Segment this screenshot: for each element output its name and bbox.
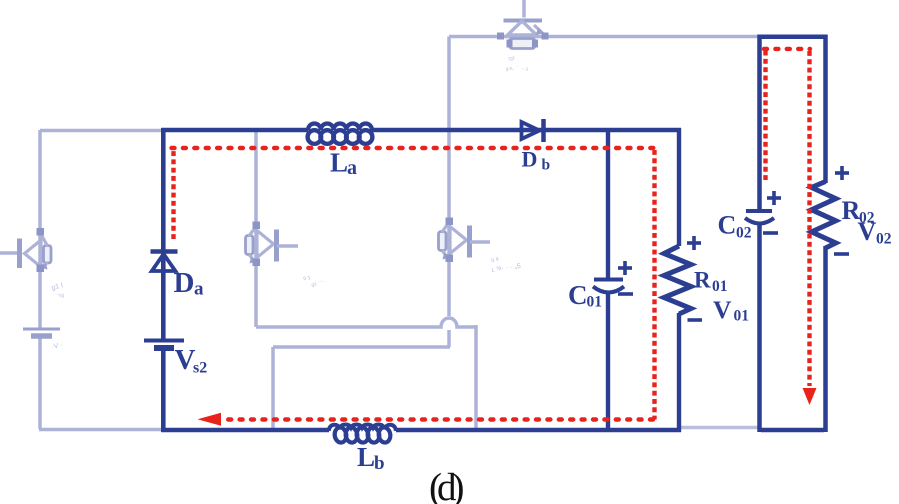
svg-text:ᵍ ᵍ: ᵍ ᵍ [491, 256, 500, 265]
resistor R01 [664, 246, 691, 314]
wire blue C01 branch vertical [606, 130, 610, 430]
svg-text:02: 02 [876, 231, 892, 248]
label faint near battery V-left [51, 342, 63, 351]
svg-text:b: b [542, 157, 551, 174]
label V02 [858, 217, 892, 248]
wire faded bottom-right horizontal (between loops) [680, 426, 759, 430]
capacitor C02 [745, 211, 774, 224]
plus sign C02 [767, 191, 781, 205]
svg-text:s2: s2 [193, 360, 207, 377]
diode Da [151, 252, 178, 272]
wire faded top horizontal (collector rail of Q-top) [449, 35, 760, 39]
wire blue main-loop bottom horizontal [161, 428, 681, 432]
svg-text:01: 01 [587, 294, 603, 311]
battery faded V-left [23, 329, 60, 336]
transistor faded Q-left (IGBT, triangle pointing left) [0, 228, 51, 272]
label La [330, 148, 357, 180]
label Da [174, 267, 205, 300]
svg-text:V: V [858, 217, 877, 246]
wire faded left vertical [38, 130, 42, 429]
capacitor C01 [593, 280, 624, 293]
svg-text:g1 I: g1 I [51, 282, 64, 292]
transistor faded Q1 (middle-left IGBT) [246, 222, 299, 267]
wire faded Q1 vertical x=256 [254, 129, 258, 327]
plus sign C01 [618, 261, 632, 275]
battery Vs2 [144, 341, 184, 349]
wire blue main-loop right vertical [677, 128, 681, 432]
svg-text:ʼ¹ᵍ: ʼ¹ᵍ [57, 292, 65, 301]
svg-text:ʟ ³ᵍ· · · ₄5: ʟ ³ᵍ· · · ₄5 [491, 263, 521, 274]
label V01 [713, 295, 749, 325]
label C02 [718, 211, 752, 242]
current path red dashed main loop [172, 148, 656, 420]
label faint near Q2 [491, 256, 522, 274]
plus sign R01 [687, 236, 701, 250]
svg-text:R: R [694, 268, 711, 293]
wire blue main-loop top horizontal [161, 128, 681, 132]
label Db [522, 147, 551, 174]
svg-text:ᵍ ɪ: ᵍ ɪ [303, 274, 312, 283]
label faint near Q1 [303, 274, 326, 290]
wire faded vertical x=273 down [271, 347, 275, 429]
svg-text:D: D [522, 147, 538, 172]
label Vs2 [175, 344, 208, 377]
svg-text:L: L [330, 148, 348, 178]
svg-text:L: L [357, 442, 375, 472]
minus sign R02 [834, 252, 849, 256]
svg-text:a: a [347, 157, 357, 179]
label R01 [694, 268, 728, 296]
svg-text:01: 01 [734, 308, 750, 325]
wire faded vertical x=476 down [474, 325, 478, 429]
wire faded vertical Q2 collector/emitter x=449 [447, 37, 451, 348]
resistor R02 [812, 182, 836, 249]
diode Db [522, 119, 544, 142]
svg-text:C: C [718, 211, 737, 240]
wire blue main-loop left vertical [161, 128, 166, 432]
wire faded top-left horizontal [40, 129, 164, 133]
label R02 [842, 196, 875, 227]
svg-text:V: V [713, 295, 732, 324]
svg-text:(d): (d) [429, 466, 463, 504]
svg-text:D: D [174, 267, 195, 299]
label Lb [357, 442, 385, 474]
label C01 [568, 280, 602, 311]
minus sign C02 [763, 231, 778, 235]
svg-text:01: 01 [712, 278, 728, 295]
wire faded horizontal with hop (Q1 emitter to x=476) [256, 318, 476, 327]
transistor faded Q2 (middle-right IGBT) [439, 218, 491, 263]
plus sign R02 [835, 166, 849, 180]
wire faded Q2 emitter horizontal y=347 [273, 345, 450, 349]
minus sign R01 [688, 318, 703, 322]
caption (d) [429, 466, 463, 504]
inductor Lb [329, 424, 396, 443]
wire faded bottom-left horizontal [39, 428, 164, 432]
wire blue right-loop rectangle [760, 35, 826, 433]
svg-text:02: 02 [736, 225, 752, 242]
svg-text:b: b [374, 453, 385, 474]
svg-text:ᵍ⁴ᵎ· ˙ ·.₃: ᵍ⁴ᵎ· ˙ ·.₃ [505, 64, 528, 74]
transistor faded Q-top (IGBT pointing up into bar) [497, 0, 549, 49]
svg-text:a: a [194, 279, 204, 300]
svg-text:C: C [568, 280, 588, 310]
arrow red left (main loop) [198, 413, 222, 426]
label faint near Q-left [51, 282, 65, 301]
svg-text:ᵗᵍ¹: ᵗᵍ¹ [508, 56, 516, 64]
inductor La [308, 124, 373, 144]
label faint near Q-top [505, 56, 528, 74]
current path red dashed right loop [764, 49, 810, 386]
svg-text:·V ·: ·V · [51, 342, 63, 351]
arrow red down (right loop) [803, 388, 817, 405]
minus sign C01 [618, 292, 633, 296]
svg-text:ᵍ³ ˙˙˙: ᵍ³ ˙˙˙ [311, 280, 326, 290]
